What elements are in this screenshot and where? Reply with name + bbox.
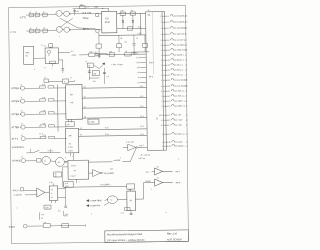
svg-text:4.7: 4.7 xyxy=(44,45,46,48)
svg-text:J1-7: J1-7 xyxy=(140,144,144,147)
svg-text:MA. A: MA. A xyxy=(83,27,89,30)
svg-text:x1 OUT x: x1 OUT x xyxy=(177,39,185,42)
svg-text:B4: B4 xyxy=(168,54,170,57)
svg-text:x1: x1 xyxy=(51,188,53,191)
svg-text:+x: +x xyxy=(44,77,46,79)
svg-text:START: START xyxy=(9,226,16,229)
svg-text:ATTEN 3: ATTEN 3 xyxy=(11,113,21,116)
svg-text:1x: 1x xyxy=(41,43,43,46)
svg-text:x4: x4 xyxy=(74,169,76,172)
svg-text:2x: 2x xyxy=(48,54,50,57)
svg-text:100 input section + window: 100 input section + window discrim xyxy=(107,239,145,242)
svg-text:13: 13 xyxy=(84,85,86,88)
svg-text:+/-24V 5V: +/-24V 5V xyxy=(13,194,22,197)
svg-text:BUSY x: BUSY x xyxy=(177,59,184,62)
svg-text:0.1: 0.1 xyxy=(58,209,61,212)
svg-text:G1: G1 xyxy=(169,133,171,136)
svg-text:x1M/x: x1M/x xyxy=(72,54,77,57)
svg-text:G2: G2 xyxy=(169,141,171,144)
svg-text:J2: J2 xyxy=(21,134,23,137)
svg-text:J1-2: J1-2 xyxy=(140,95,144,98)
svg-text:co: co xyxy=(110,200,112,202)
svg-text:IN GATE 2 x: IN GATE 2 x xyxy=(177,21,188,24)
svg-text:B1: B1 xyxy=(168,39,170,42)
svg-text:+COMP TRUE: +COMP TRUE xyxy=(89,199,102,202)
svg-text:DATA x: DATA x xyxy=(178,145,184,148)
svg-text:+5V: +5V xyxy=(94,6,99,9)
svg-text:220: 220 xyxy=(121,9,124,12)
svg-text:4.7k/x: 4.7k/x xyxy=(89,121,95,124)
svg-text:4.7k: 4.7k xyxy=(121,211,124,214)
svg-text:J1-5: J1-5 xyxy=(140,125,144,128)
svg-text:CLK 1: CLK 1 xyxy=(71,164,76,167)
svg-text:+2: +2 xyxy=(85,60,87,63)
svg-text:SLOPE BIPOL: SLOPE BIPOL xyxy=(12,146,25,149)
svg-text:A4: A4 xyxy=(167,33,169,36)
svg-text:xxx: xxx xyxy=(110,168,113,170)
svg-text:+5: +5 xyxy=(137,71,139,74)
svg-text:CA: CA xyxy=(105,17,109,20)
svg-text:1x: 1x xyxy=(88,64,90,67)
svg-text:4.7k: 4.7k xyxy=(66,123,69,126)
svg-text:C1: C1 xyxy=(168,59,170,62)
svg-text:4.7k/x: 4.7k/x xyxy=(68,149,73,152)
svg-text:4.7k: 4.7k xyxy=(42,122,45,125)
svg-text:D1: D1 xyxy=(168,79,170,82)
svg-text:POLY BIPO: POLY BIPO xyxy=(104,172,115,175)
svg-text:0.1u: 0.1u xyxy=(105,133,109,136)
svg-text:-5: -5 xyxy=(136,37,138,40)
svg-text:+/- SLOPE x: +/- SLOPE x xyxy=(100,183,111,186)
svg-text:0.1u: 0.1u xyxy=(105,126,109,129)
svg-text:J2: J2 xyxy=(21,109,23,112)
svg-text:1k: 1k xyxy=(44,221,46,224)
svg-text:+2: +2 xyxy=(137,81,139,84)
svg-text:-1.5: -1.5 xyxy=(136,56,139,59)
svg-text:PE-1 x: PE-1 x xyxy=(177,64,183,67)
svg-text:75R-2 x: 75R-2 x xyxy=(177,95,184,98)
svg-text:Rev 1 of: Rev 1 of xyxy=(167,233,177,236)
svg-text:COARSE: COARSE xyxy=(12,159,22,162)
svg-text:AUG SCHEM.: AUG SCHEM. xyxy=(166,238,183,241)
svg-text:+ Vcc + Input: + Vcc + Input xyxy=(111,63,123,66)
svg-text:ATT 5: ATT 5 xyxy=(12,138,19,141)
svg-text:x10: x10 xyxy=(135,52,138,55)
svg-text:4.7k: 4.7k xyxy=(42,96,45,99)
svg-text:x.x xx: x.x xx xyxy=(39,133,43,135)
svg-text:7.4k: 7.4k xyxy=(65,213,68,216)
svg-text:741: 741 xyxy=(70,101,73,104)
svg-text:+12: +12 xyxy=(156,165,159,168)
svg-text:x 4k: x 4k xyxy=(128,188,131,191)
svg-text:J1: J1 xyxy=(148,9,150,12)
svg-text:J2: J2 xyxy=(20,96,22,99)
svg-text:4.7k: 4.7k xyxy=(49,181,53,184)
svg-text:F2: F2 xyxy=(169,119,171,122)
svg-text:2.2k: 2.2k xyxy=(92,80,95,83)
svg-text:50: 50 xyxy=(26,54,28,57)
svg-text:C2: C2 xyxy=(168,64,170,67)
svg-text:0.1: 0.1 xyxy=(95,51,97,54)
svg-text:+xSUM: +xSUM xyxy=(145,180,151,183)
svg-text:-12: -12 xyxy=(156,176,159,179)
svg-text:C-TTL: C-TTL xyxy=(20,16,27,19)
svg-text:J2: J2 xyxy=(20,83,22,86)
svg-text:11: 11 xyxy=(84,105,86,108)
svg-text:GATE x: GATE x xyxy=(177,54,184,57)
svg-text:J1-3: J1-3 xyxy=(140,105,144,108)
svg-text:E2: E2 xyxy=(168,95,170,98)
svg-text:4.7: 4.7 xyxy=(86,6,88,9)
svg-text:POLY x: POLY x xyxy=(13,189,20,192)
svg-text:+15V: +15V xyxy=(178,119,183,122)
svg-text:Mca Microchannel Analyzer M: Mca Microchannel Analyzer MxA xyxy=(107,233,143,236)
svg-text:C4: C4 xyxy=(168,74,170,77)
svg-text:22: 22 xyxy=(69,142,71,145)
svg-text:E3: E3 xyxy=(168,100,170,103)
svg-text:AMP 2 x: AMP 2 x xyxy=(178,105,185,108)
svg-text:x: x xyxy=(65,157,66,159)
svg-text:xx-x: xx-x xyxy=(146,171,150,174)
svg-text:-15: -15 xyxy=(136,66,139,69)
svg-text:CLK 7: CLK 7 xyxy=(71,175,76,178)
svg-text:J1-6: J1-6 xyxy=(140,133,144,136)
svg-text:4.7k: 4.7k xyxy=(42,109,45,112)
svg-text:4.7k x LM: 4.7k x LM xyxy=(126,141,134,144)
svg-text:P-TTL: P-TTL xyxy=(10,31,17,34)
svg-text:E1: E1 xyxy=(168,90,170,93)
svg-text:B3: B3 xyxy=(168,49,170,52)
svg-text:1x: 1x xyxy=(70,76,72,79)
svg-text:AMP 1 x: AMP 1 x xyxy=(177,100,184,103)
svg-text:3140: 3140 xyxy=(105,21,111,24)
svg-text:IN GATE 1 x: IN GATE 1 x xyxy=(176,15,187,18)
svg-text:F3: F3 xyxy=(169,124,171,127)
svg-text:x 4.7 xx: x 4.7 xx xyxy=(138,157,145,160)
svg-text:CW: CW xyxy=(80,3,83,6)
svg-text:J1 - xxx xx: J1 - xxx xx xyxy=(140,154,150,157)
svg-text:10: 10 xyxy=(84,115,86,118)
svg-text:x1 GATE x: x1 GATE x xyxy=(177,44,186,47)
svg-text:-5: -5 xyxy=(137,76,139,79)
svg-text:75R-1 x: 75R-1 x xyxy=(177,90,184,93)
svg-text:A2: A2 xyxy=(167,21,169,24)
svg-text:A3: A3 xyxy=(167,27,169,30)
svg-text:PE-3 x: PE-3 x xyxy=(177,74,183,77)
svg-text:B.S. A.M.: B.S. A.M. xyxy=(83,11,92,14)
svg-text:ATTEN 4: ATTEN 4 xyxy=(12,126,22,129)
svg-text:Delay: Delay xyxy=(83,17,90,20)
svg-text:x.x: x.x xyxy=(44,67,46,69)
svg-text:4.7: 4.7 xyxy=(106,75,109,78)
svg-text:J2: J2 xyxy=(21,122,23,125)
svg-text:x1: x1 xyxy=(44,159,46,162)
svg-text:ATTEN 2: ATTEN 2 xyxy=(11,100,21,103)
svg-text:1x x: 1x x xyxy=(71,50,74,53)
svg-text:4.7k: 4.7k xyxy=(65,182,69,185)
svg-text:4.7k/x: 4.7k/x xyxy=(68,146,73,149)
svg-text:G3: G3 xyxy=(169,145,171,148)
svg-text:E4: E4 xyxy=(168,105,170,108)
svg-text:PE-2 x: PE-2 x xyxy=(177,69,183,72)
svg-text:C3: C3 xyxy=(168,69,170,72)
svg-text:ATTEN 1: ATTEN 1 xyxy=(11,87,21,90)
svg-text:2k: 2k xyxy=(55,175,57,178)
svg-text:x10 OUT x: x10 OUT x xyxy=(177,33,186,36)
svg-text:+15: +15 xyxy=(136,61,139,64)
svg-text:7.4k: 7.4k xyxy=(41,213,44,216)
svg-text:F1: F1 xyxy=(168,114,170,117)
svg-text:+5: +5 xyxy=(120,37,122,40)
svg-text:12: 12 xyxy=(84,95,86,98)
svg-text:x10: x10 xyxy=(57,161,60,164)
svg-text:A1: A1 xyxy=(167,15,169,18)
svg-text:-COMP TRU: -COMP TRU xyxy=(89,204,100,207)
svg-text:x: x xyxy=(64,81,65,83)
svg-text:D2: D2 xyxy=(168,85,170,88)
svg-text:J1-1: J1-1 xyxy=(140,85,144,88)
svg-text:J1-4: J1-4 xyxy=(140,115,144,118)
svg-text:4.7k: 4.7k xyxy=(42,83,45,86)
svg-text:BNC: BNC xyxy=(26,51,31,54)
svg-text:-15V: -15V xyxy=(178,124,183,127)
svg-text:B2: B2 xyxy=(168,44,170,47)
svg-text:x1: x1 xyxy=(80,127,82,130)
svg-text:x1: x1 xyxy=(80,133,82,136)
svg-text:C20: C20 xyxy=(45,206,49,209)
svg-text:x2: x2 xyxy=(51,196,53,199)
svg-text:ADC xx: ADC xx xyxy=(178,133,185,136)
svg-text:+xxSUM: +xxSUM xyxy=(113,159,121,162)
svg-text:C2: C2 xyxy=(41,217,43,220)
